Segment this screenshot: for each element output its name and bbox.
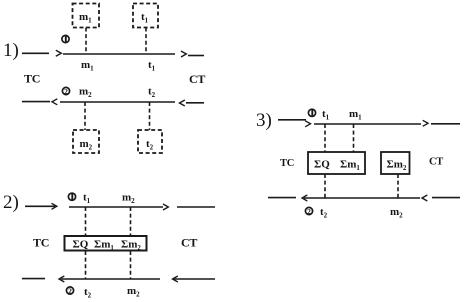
svg-text:t2: t2 bbox=[146, 138, 154, 152]
wire: return inlet stub with arrow < (right) bbox=[173, 276, 216, 282]
node label m2 above return pipe bbox=[79, 86, 92, 100]
pin number 2 (circled) bbox=[305, 207, 312, 216]
scheme number label 3) bbox=[256, 110, 272, 131]
pin number 2 (circled) on return pipe bbox=[62, 87, 69, 96]
wire: supply pipe main run bbox=[314, 123, 421, 125]
wire: dashed link calculator to return pipe bbox=[324, 174, 326, 198]
wire: return pipe main run bbox=[304, 197, 420, 199]
svg-text:t1: t1 bbox=[148, 59, 156, 73]
wire: dashed link, return pipe to box m2 bbox=[84, 102, 86, 130]
scheme number label 2) bbox=[3, 192, 19, 213]
wire: return pipe outlet stub (left) bbox=[22, 101, 50, 103]
wire: supply pipe outlet stub bbox=[177, 206, 215, 208]
svg-text:TC: TC bbox=[280, 158, 294, 169]
svg-text:Σm2: Σm2 bbox=[387, 159, 407, 173]
svg-text:2: 2 bbox=[68, 286, 72, 295]
wire: return pipe main run bbox=[61, 278, 160, 280]
wire: dashed link, return pipe to box t2 bbox=[149, 102, 151, 130]
arrow: return flow < at pipe right end bbox=[422, 195, 427, 201]
wire: dashed link, box t1 to supply pipe bbox=[145, 28, 147, 55]
svg-text:m2: m2 bbox=[80, 138, 93, 152]
calculator box SQ Sm1 bbox=[308, 152, 365, 174]
svg-text:t1: t1 bbox=[322, 108, 330, 122]
wire: return pipe outlet stub (left) bbox=[268, 197, 296, 199]
label TC bbox=[33, 236, 49, 250]
svg-text:m1: m1 bbox=[79, 11, 92, 25]
node label t1 on supply pipe bbox=[322, 108, 330, 122]
wire: dashed link supply pipe to calculator (left) bbox=[85, 207, 87, 235]
label CT bbox=[181, 236, 197, 250]
svg-text:m1: m1 bbox=[349, 108, 362, 122]
svg-text:TC: TC bbox=[24, 72, 40, 86]
svg-text:TC: TC bbox=[33, 236, 49, 250]
svg-text:ΣQ: ΣQ bbox=[73, 239, 89, 251]
node label t2 above return pipe bbox=[148, 86, 156, 100]
wire: supply pipe inlet stub bbox=[22, 52, 49, 54]
wire: supply inlet stub with arrow bbox=[25, 203, 57, 209]
pin number 2 (circled) bbox=[66, 286, 73, 295]
sensor box m2 (dashed) bbox=[73, 130, 99, 153]
svg-text:2): 2) bbox=[3, 192, 19, 213]
node label t2 on return pipe bbox=[84, 286, 92, 300]
node label m1 under supply pipe bbox=[81, 59, 94, 73]
svg-text:CT: CT bbox=[181, 236, 197, 250]
svg-text:t1: t1 bbox=[141, 11, 149, 25]
svg-text:Σm2: Σm2 bbox=[121, 239, 141, 253]
wire: supply pipe inlet stub bbox=[278, 119, 306, 121]
label TC bbox=[280, 158, 294, 169]
svg-text:Σm1: Σm1 bbox=[94, 239, 114, 253]
arrow: supply outlet flow > bbox=[163, 204, 168, 210]
arrow: return flow < at right bbox=[180, 100, 185, 106]
wire: dashed link supply pipe to calculator (left) bbox=[324, 124, 326, 152]
wire: supply pipe outlet stub bbox=[431, 123, 460, 125]
svg-text:Σm1: Σm1 bbox=[340, 159, 360, 173]
totalizer box Sm2 bbox=[381, 152, 410, 174]
svg-text:m1: m1 bbox=[81, 59, 94, 73]
sensor box t1 (dashed) bbox=[133, 4, 158, 28]
arrow: supply inlet flow > bbox=[305, 121, 310, 127]
wire: dashed link supply pipe to calculator (right) bbox=[353, 124, 355, 152]
pin number 1 (circled) on supply pipe bbox=[62, 35, 69, 42]
sensor box m1 (dashed) bbox=[73, 4, 100, 28]
wire: supply pipe main run bbox=[63, 53, 175, 55]
arrow: return flow < at pipe left end bbox=[59, 276, 64, 282]
label CT (consumer side) bbox=[189, 72, 205, 86]
svg-text:ΣQ: ΣQ bbox=[314, 159, 330, 171]
label CT bbox=[429, 157, 443, 168]
svg-text:2: 2 bbox=[64, 87, 68, 96]
arrow: supply outlet flow > bbox=[423, 120, 428, 126]
node label t1 under supply pipe bbox=[148, 59, 156, 73]
wire: dashed link, box m1 to supply pipe bbox=[85, 28, 87, 55]
wire: return pipe main run bbox=[60, 101, 175, 103]
svg-text:CT: CT bbox=[429, 157, 443, 168]
sensor box t2 (dashed) bbox=[138, 130, 162, 153]
wire: supply pipe main run bbox=[69, 206, 163, 208]
arrow: return outlet flow < bbox=[52, 99, 57, 105]
arrow: supply outlet flow > bbox=[181, 51, 186, 57]
pin number 1 (circled) bbox=[68, 193, 75, 200]
svg-text:t1: t1 bbox=[83, 192, 91, 206]
node label m1 on supply pipe bbox=[349, 108, 362, 122]
svg-text:t2: t2 bbox=[84, 286, 92, 300]
calculator box SQ Sm1 Sm2 bbox=[65, 236, 147, 252]
node label m2 on supply pipe bbox=[122, 192, 135, 206]
pin number 1 (circled) bbox=[308, 109, 315, 116]
scheme number label 1) bbox=[3, 40, 19, 61]
svg-text:t2: t2 bbox=[320, 206, 328, 220]
node label t1 on supply pipe bbox=[83, 192, 91, 206]
wire: dashed link calculator to return pipe (right) bbox=[130, 251, 132, 279]
arrow: supply inlet flow > bbox=[56, 50, 62, 56]
svg-text:m2: m2 bbox=[122, 192, 135, 206]
svg-text:CT: CT bbox=[189, 72, 205, 86]
wire: return pipe outlet stub (left) bbox=[22, 278, 45, 280]
wire: supply pipe outlet stub bbox=[188, 55, 204, 57]
arrow: return flow < at pipe left end bbox=[302, 195, 307, 201]
node label m2 on return pipe bbox=[390, 206, 403, 220]
svg-text:t2: t2 bbox=[148, 86, 156, 100]
svg-text:m2: m2 bbox=[127, 285, 140, 299]
svg-text:3): 3) bbox=[256, 110, 272, 131]
label TC (heat source side) bbox=[24, 72, 40, 86]
svg-text:2: 2 bbox=[307, 207, 311, 216]
wire: dashed link calculator to return pipe (left) bbox=[85, 251, 87, 279]
node label t2 on return pipe bbox=[320, 206, 328, 220]
wire: return pipe inlet stub (right) bbox=[186, 102, 204, 104]
wire: dashed link totalizer Sm2 to return pipe bbox=[397, 174, 399, 198]
node label m2 on return pipe bbox=[127, 285, 140, 299]
wire: return pipe inlet stub (right) bbox=[432, 197, 460, 199]
svg-text:1): 1) bbox=[3, 40, 19, 61]
svg-text:m2: m2 bbox=[390, 206, 403, 220]
wire: dashed link supply pipe to calculator (right) bbox=[130, 207, 132, 235]
svg-text:m2: m2 bbox=[79, 86, 92, 100]
